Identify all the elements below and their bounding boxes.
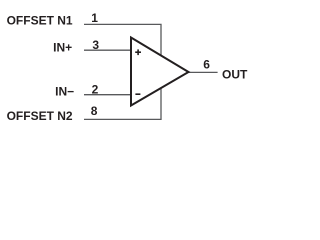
svg-text:3: 3: [92, 38, 99, 52]
svg-text:8: 8: [91, 104, 98, 118]
svg-text:1: 1: [91, 11, 98, 25]
svg-text:OUT: OUT: [222, 67, 248, 81]
svg-text:2: 2: [92, 82, 99, 96]
svg-text:OFFSET N2: OFFSET N2: [7, 109, 73, 123]
svg-text:IN−: IN−: [55, 85, 74, 99]
svg-text:IN+: IN+: [53, 40, 72, 54]
svg-text:6: 6: [203, 57, 210, 71]
svg-text:OFFSET N1: OFFSET N1: [7, 14, 73, 28]
